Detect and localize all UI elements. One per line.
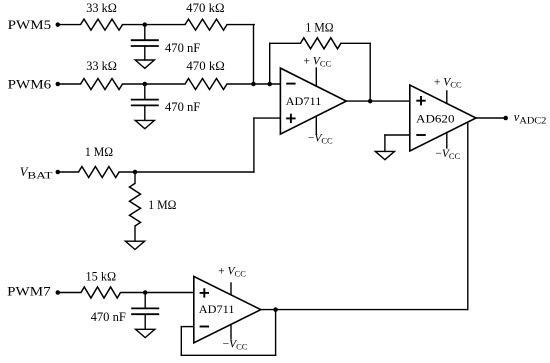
wire PWM6 terminal to R3 [58, 83, 81, 85]
wire U3 feedback up to output [275, 310, 277, 356]
resistor R1 33k [81, 19, 123, 30]
node PWM5 terminal [56, 22, 61, 27]
node PWM5 join [251, 82, 256, 87]
svg-text:+ VCC: + VCC [303, 55, 331, 68]
svg-text:1 MΩ: 1 MΩ [305, 21, 333, 35]
wire R6 to ground [134, 226, 136, 241]
wire R3 to node B [123, 83, 186, 85]
svg-text:15 kΩ: 15 kΩ [86, 269, 117, 283]
U1 +Vcc pin [315, 68, 317, 86]
wire U3 feedback down [180, 327, 182, 356]
svg-text:33 kΩ: 33 kΩ [86, 59, 117, 73]
wire U2 inverting to ground [384, 135, 386, 151]
node VBAT terminal [56, 170, 61, 175]
capacitor C1 470n [131, 39, 159, 41]
svg-text:AD711: AD711 [286, 94, 322, 108]
resistor R2 470k [185, 19, 227, 30]
svg-text:+ VCC: + VCC [218, 266, 246, 279]
svg-text:−VCC: −VCC [435, 148, 460, 161]
wire U3 feedback bottom [181, 354, 275, 356]
wire U1 output to U2 [346, 100, 410, 102]
svg-text:AD620: AD620 [416, 112, 455, 126]
svg-text:+ VCC: + VCC [434, 77, 462, 90]
U2 +Vcc pin [446, 91, 448, 103]
svg-text:470 kΩ: 470 kΩ [186, 59, 224, 73]
ground C1 [135, 60, 154, 68]
resistor R5 1M [79, 167, 120, 178]
node PWM6 terminal [56, 82, 61, 87]
node vADC2 terminal [503, 116, 508, 121]
resistor R4 470k [185, 79, 227, 90]
wire PWM7 terminal to R7 [58, 292, 81, 294]
wire U3 feedback from inverting input [181, 326, 194, 328]
U2 plus sign [416, 100, 425, 102]
svg-text:470 nF: 470 nF [91, 310, 126, 324]
wire PWM5 terminal to R1 [58, 24, 81, 26]
ground R6 [125, 241, 144, 249]
wire R2 to corner [227, 24, 254, 26]
U1 minus sign [286, 83, 295, 85]
svg-text:PWM7: PWM7 [7, 285, 51, 299]
resistor R6 1M to ground lead [134, 172, 136, 183]
node PWM7 terminal [56, 290, 61, 295]
U2 minus sign [416, 134, 425, 136]
wire U2 inverting input [385, 134, 410, 136]
svg-text:VBAT: VBAT [20, 165, 53, 181]
U2 reference pin wire down [467, 122, 469, 310]
op-amp U2 AD620 [410, 85, 476, 151]
svg-text:−VCC: −VCC [308, 133, 333, 146]
capacitor C2 470n [131, 99, 159, 101]
U3 plus sign [200, 292, 209, 294]
svg-text:470 nF: 470 nF [165, 41, 200, 55]
node B (PWM6 RC) [143, 82, 148, 87]
wire U3 output to U2 reference [261, 309, 468, 311]
svg-text:470 kΩ: 470 kΩ [186, 1, 224, 15]
resistor R8 1M feedback [300, 38, 341, 49]
node C (VBAT divider) [133, 170, 138, 175]
wire into U1 plus [254, 117, 281, 119]
U3 minus sign [200, 326, 209, 328]
resistor R7 15k [81, 287, 121, 298]
U2 -Vcc pin [446, 133, 448, 148]
node feedback join [267, 82, 272, 87]
ground C2 [135, 120, 154, 128]
capacitor C2 470n lead [144, 84, 146, 100]
U3 +Vcc pin [230, 283, 232, 295]
node U3 output [273, 307, 278, 312]
wire feedback right segment [341, 42, 370, 44]
node A (PWM5 RC) [143, 22, 148, 27]
svg-text:1 MΩ: 1 MΩ [85, 145, 113, 159]
svg-text:−VCC: −VCC [223, 339, 248, 352]
U3 -Vcc pin [230, 324, 232, 339]
capacitor C1 470n lead [144, 25, 146, 41]
resistor R3 33k [81, 79, 123, 90]
wire feedback up [269, 43, 271, 84]
wire C4 to ground [144, 314, 146, 329]
wire up to U1 noninverting input [253, 118, 255, 172]
svg-text:vADC2: vADC2 [514, 110, 547, 126]
U1 -Vcc pin [315, 116, 317, 133]
op-amp U1 AD711 [280, 68, 346, 134]
ground C4 [136, 329, 155, 337]
svg-text:AD711: AD711 [199, 302, 235, 316]
node D (PWM7 RC) [143, 290, 148, 295]
wire C1 to ground [144, 46, 146, 60]
wire feedback left segment [270, 42, 301, 44]
wire PWM5 branch down to inverting node [253, 25, 255, 84]
capacitor C4 470n lead [144, 293, 146, 309]
node U1 output [368, 99, 373, 104]
wire R7 to node D [121, 292, 194, 294]
capacitor C4 470n [131, 307, 159, 309]
svg-text:33 kΩ: 33 kΩ [86, 1, 117, 15]
wire node C to corner [135, 171, 254, 173]
svg-text:470 nF: 470 nF [165, 100, 200, 114]
wire VBAT terminal to R5 [58, 171, 79, 173]
wire feedback down to output node [369, 43, 371, 101]
wire C2 to ground [144, 105, 146, 120]
svg-text:PWM5: PWM5 [8, 18, 52, 32]
op-amp U3 AD711 [194, 276, 261, 342]
wire R5 to node C [119, 171, 135, 173]
U1 plus sign [286, 117, 295, 119]
wire R4 to U1 inverting input [227, 83, 280, 85]
svg-text:PWM6: PWM6 [8, 78, 52, 92]
resistor R6 1M vertical [130, 183, 141, 226]
svg-text:1 MΩ: 1 MΩ [148, 198, 176, 212]
ground U2 reference [375, 151, 394, 159]
wire U2 output [476, 117, 506, 119]
wire R1 to node A [123, 24, 186, 26]
